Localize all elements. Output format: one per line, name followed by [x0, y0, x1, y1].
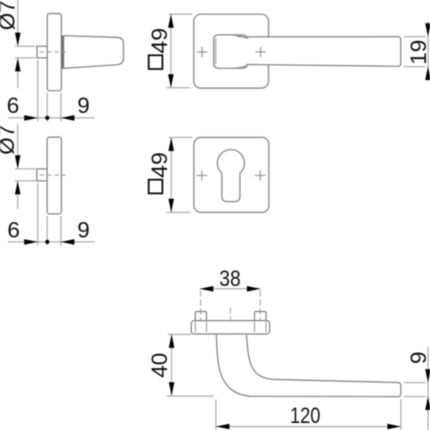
arrow up (Ø7 bottom) — [15, 181, 21, 195]
svg-text:9: 9 — [406, 351, 430, 364]
center line rose — [229, 308, 231, 341]
square rose — [194, 137, 269, 212]
svg-text:40: 40 — [147, 353, 172, 378]
neck top highlight — [233, 35, 249, 38]
center line — [40, 174, 66, 176]
svg-text:49: 49 — [147, 152, 172, 178]
euro cylinder keyhole — [217, 150, 244, 202]
screw right — [255, 312, 267, 321]
arrow right (120) — [387, 424, 401, 430]
extension line spindle bottom — [15, 180, 36, 182]
center line screw right — [259, 291, 261, 334]
extension line 9 top — [404, 382, 426, 384]
dot node — [45, 240, 49, 244]
dimension line 9 — [427, 347, 429, 430]
svg-text:19: 19 — [406, 40, 430, 65]
arrow down (Ø7 top) — [15, 33, 21, 47]
extension line below rosette right — [60, 216, 62, 245]
lever bar outline — [247, 37, 401, 67]
extension line 120 left — [215, 400, 217, 430]
neck bottom highlight — [229, 65, 249, 69]
arrow up (49 top) — [168, 138, 174, 152]
cross right — [255, 47, 265, 57]
thumbturn knob — [64, 36, 124, 69]
center line screw left — [200, 291, 202, 334]
arrow down (49 bottom) — [168, 74, 174, 88]
svg-text:Ø7: Ø7 — [0, 0, 20, 30]
cross right — [255, 170, 265, 180]
arrow down (19 top) — [425, 23, 430, 37]
dimension line Ø7 lower segment — [17, 71, 19, 88]
extension line 120 right — [400, 399, 402, 430]
svg-text:49: 49 — [147, 28, 172, 54]
screw shaft right — [255, 322, 267, 332]
extension line 40 top — [168, 333, 192, 335]
svg-text:6: 6 — [7, 217, 20, 242]
svg-text:38: 38 — [219, 266, 241, 291]
extension line rose bottom — [166, 87, 190, 89]
arrow up (49 top) — [168, 14, 174, 27]
extension line bar top — [404, 36, 426, 38]
square symbol — [149, 180, 163, 194]
extension line below rosette left — [46, 93, 48, 122]
rosette (side view) — [47, 14, 61, 91]
rosette (side view) — [47, 137, 61, 214]
dimension line 38 — [200, 288, 261, 290]
dimension line 49 — [170, 138, 172, 213]
extension line below rosette left — [46, 216, 48, 245]
square symbol — [149, 55, 163, 69]
extension line spindle top — [15, 168, 36, 170]
cross left — [197, 170, 207, 180]
arrow right (6) — [24, 115, 38, 121]
knob attachment edge — [61, 36, 63, 69]
extension line bar bottom — [404, 66, 426, 68]
arrow left (9) — [61, 239, 75, 245]
neck fill — [214, 35, 248, 69]
handle neck and lever (side view) — [216, 335, 401, 397]
arrow up (40 top) — [169, 334, 175, 348]
dimension line 6/9 — [8, 241, 95, 243]
extension line spindle bottom — [15, 57, 36, 59]
dimension line Ø7 lower segment — [17, 194, 19, 209]
arrow up (Ø7 bottom) — [15, 58, 21, 72]
dimension line Ø7 upper segment — [17, 0, 19, 45]
extension line below spindle — [37, 183, 39, 245]
cross left — [197, 47, 207, 57]
extension line 9 bottom — [404, 396, 426, 398]
extension line spindle top — [15, 45, 36, 47]
arrow up (9 bottom) — [425, 397, 430, 411]
extension line rose top — [169, 13, 193, 15]
dot node — [45, 116, 49, 120]
neck inner edge — [215, 39, 217, 65]
arrow right (6) — [24, 239, 38, 245]
lever bar fill — [247, 37, 401, 67]
extension line 40 bottom — [167, 395, 214, 397]
arrow down (9 top) — [425, 369, 430, 383]
dimension line 19 — [427, 22, 429, 82]
svg-text:9: 9 — [77, 217, 90, 242]
screw left — [195, 312, 206, 321]
dimension line 49 — [170, 14, 172, 88]
dimension line 6/9 — [8, 117, 95, 119]
square rose — [194, 14, 269, 88]
rose plate (side view) — [191, 321, 269, 334]
screw shaft left — [195, 322, 206, 332]
arrow right (38) — [247, 286, 261, 292]
arrow left (38) — [200, 286, 214, 292]
dimension line 120 — [216, 426, 401, 428]
svg-text:9: 9 — [77, 93, 90, 118]
dimension line Ø7 upper segment — [17, 124, 19, 168]
arrow up (19 bottom) — [425, 67, 430, 81]
neck outline — [214, 35, 247, 69]
extension line rose top — [169, 136, 193, 138]
svg-text:6: 6 — [7, 93, 20, 118]
arrow down (Ø7 top) — [15, 155, 21, 169]
arrow down (49 bottom) — [168, 199, 174, 213]
arrow left (120) — [216, 424, 230, 430]
svg-text:Ø7: Ø7 — [0, 125, 19, 155]
arrow down (40 bottom) — [169, 382, 175, 396]
spindle — [37, 169, 47, 181]
extension line below rosette right — [60, 93, 62, 122]
extension line below spindle — [37, 60, 39, 122]
dimension line 40 — [171, 334, 173, 395]
extension line rose bottom — [167, 211, 191, 213]
spindle — [37, 46, 47, 58]
center line — [40, 51, 66, 53]
arrow left (9) — [61, 115, 75, 121]
svg-text:120: 120 — [290, 403, 321, 428]
